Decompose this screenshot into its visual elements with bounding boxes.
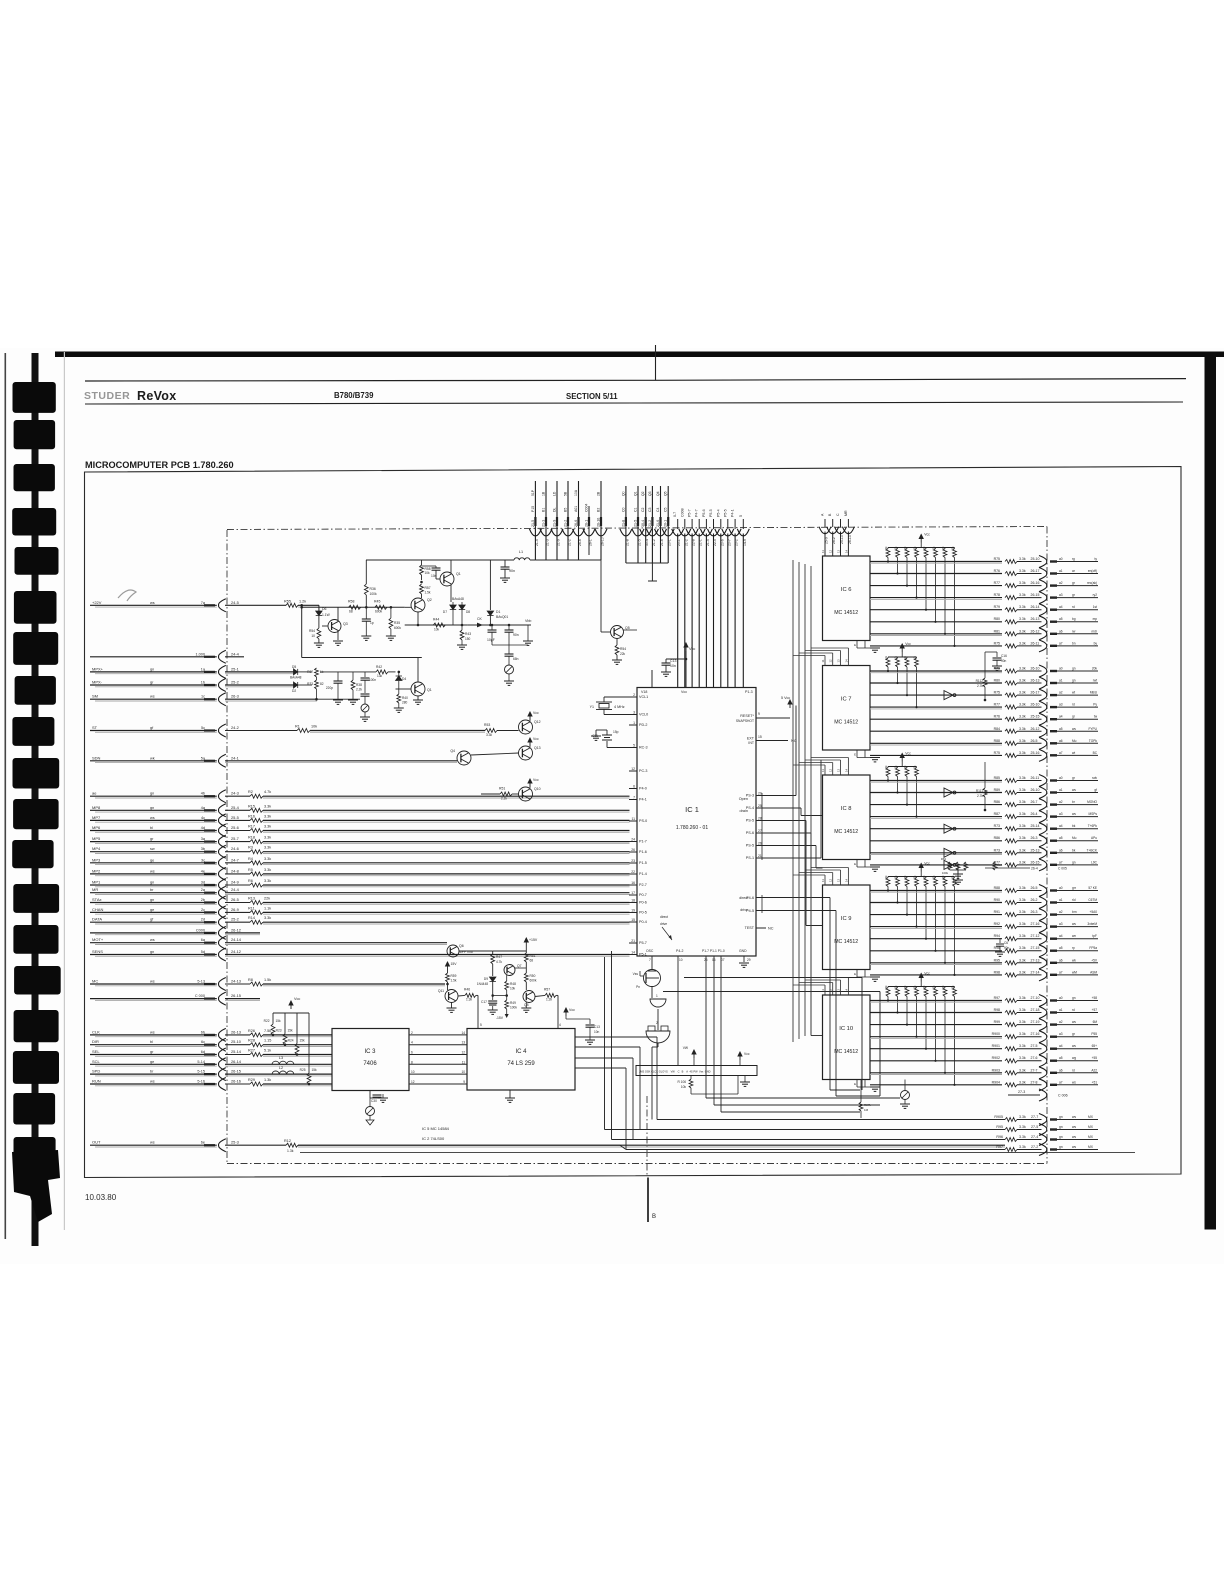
IC 10 output row 27-19 — [870, 1019, 1098, 1031]
svg-text:a6: a6 — [1059, 958, 1063, 962]
svg-text:MC: MC — [92, 979, 98, 984]
svg-text:Vcc: Vcc — [905, 752, 911, 756]
svg-text:15k: 15k — [312, 1068, 318, 1072]
svg-text:12: 12 — [631, 767, 635, 771]
svg-text:a4: a4 — [1059, 824, 1063, 828]
supply +15V Q7 — [524, 938, 538, 953]
wire U4 output 2 — [575, 1047, 640, 1130]
svg-text:Q4: Q4 — [450, 749, 455, 753]
ic IC 10 input stubs — [793, 978, 848, 996]
wire U1 P42 drop — [677, 956, 679, 1066]
ic U1 PS pin labels — [739, 792, 762, 861]
svg-text:4: 4 — [559, 1023, 561, 1027]
capacitor C18 — [585, 1025, 600, 1044]
IC 8 output row 26-10 — [870, 787, 1098, 799]
svg-text:gn: gn — [1059, 1145, 1063, 1149]
ic U3 name — [363, 1049, 377, 1067]
svg-text:26-10: 26-10 — [1031, 667, 1040, 671]
IC 9 output row 27-12 — [870, 933, 1098, 945]
wire row607 — [300, 606, 404, 609]
svg-text:68: 68 — [530, 959, 534, 963]
svg-text:a2: a2 — [1059, 691, 1063, 695]
svg-text:bk: bk — [1072, 824, 1076, 828]
capacitor C7 — [500, 560, 515, 582]
svg-text:PS-6: PS-6 — [746, 831, 754, 835]
inverter on IC8 row5 — [944, 824, 956, 833]
svg-text:STUDER: STUDER — [84, 390, 130, 402]
bottom output row 27-5 — [996, 1124, 1098, 1136]
svg-text:R54: R54 — [620, 647, 626, 651]
ic IC 6 name — [834, 587, 858, 616]
wire U1 osc drop — [651, 956, 653, 969]
svg-text:22k: 22k — [620, 652, 626, 656]
IC 9 output row 27-13 — [870, 957, 1098, 969]
wire U1 P10 drop — [721, 956, 860, 1112]
wire row625b — [490, 624, 531, 626]
svg-text:R75: R75 — [994, 641, 1000, 645]
svg-text:220p: 220p — [326, 686, 333, 690]
top black scan bar — [55, 352, 1224, 358]
svg-text:R96: R96 — [996, 1135, 1003, 1139]
svg-text:MX: MX — [1088, 1145, 1094, 1149]
svg-text:R905: R905 — [994, 1115, 1003, 1119]
svg-text:Q7: Q7 — [517, 964, 522, 968]
svg-text:P5-1: P5-1 — [639, 953, 647, 957]
svg-text:ST: ST — [92, 725, 98, 730]
svg-text:27-4: 27-4 — [1031, 1135, 1038, 1139]
svg-text:Vcc: Vcc — [924, 862, 930, 866]
svg-text:MP1: MP1 — [92, 880, 101, 885]
connector row 24-1 wire — [90, 754, 457, 767]
svg-text:E: E — [854, 972, 856, 976]
svg-text:14: 14 — [844, 549, 848, 553]
svg-text:24-13: 24-13 — [231, 979, 241, 984]
svg-text:B: B — [652, 1214, 656, 1220]
svg-text:21-5: 21-5 — [634, 520, 638, 527]
svg-text:R77: R77 — [994, 581, 1000, 585]
bottom long row1152 — [300, 1152, 1135, 1154]
svg-text:26-15: 26-15 — [1031, 860, 1040, 864]
svg-text:MX: MX — [1088, 1135, 1094, 1139]
svg-text:+5V: +5V — [1091, 958, 1098, 962]
svg-text:a6: a6 — [1059, 848, 1063, 852]
svg-text:20: 20 — [758, 792, 762, 796]
svg-text:1N4448: 1N4448 — [477, 982, 488, 986]
svg-text:PS-5: PS-5 — [746, 844, 754, 848]
svg-text:26-11: 26-11 — [1031, 641, 1040, 645]
binder hole 1 — [13, 382, 56, 413]
capacitor C13 — [661, 658, 687, 677]
svg-text:R92: R92 — [994, 922, 1000, 926]
svg-text:R37: R37 — [307, 670, 313, 674]
svg-text:ws: ws — [150, 695, 155, 699]
ic U1 left pins — [629, 693, 648, 957]
svg-text:ws: ws — [150, 869, 155, 873]
wire row625 — [405, 624, 468, 626]
svg-text:3xbeM: 3xbeM — [1087, 922, 1097, 926]
svg-text:a1: a1 — [1059, 679, 1063, 683]
svg-text:3.3k: 3.3k — [1019, 860, 1026, 864]
svg-text:24-14: 24-14 — [231, 937, 242, 942]
svg-text:R59: R59 — [451, 974, 457, 978]
resistor R51b — [524, 953, 535, 968]
svg-text:VW: VW — [683, 1046, 689, 1050]
svg-text:3.3k: 3.3k — [1019, 703, 1026, 707]
svg-text:MR: MR — [92, 887, 98, 892]
svg-text:MR: MR — [844, 510, 848, 516]
svg-text:1p: 1p — [370, 621, 374, 625]
fet Q15 — [633, 970, 661, 990]
svg-text:IC 5 MC 14584: IC 5 MC 14584 — [422, 1126, 450, 1131]
svg-text:R98: R98 — [994, 1008, 1000, 1012]
svg-text:R27: R27 — [248, 1049, 255, 1053]
connector row 26-16 wire — [90, 1078, 332, 1091]
connector row 24-13 wire — [90, 978, 445, 991]
IC 7 output row 26-13 — [870, 677, 1098, 689]
ic IC 7 pull-up resistor bank — [885, 642, 918, 708]
svg-text:3.3k: 3.3k — [1019, 996, 1026, 1000]
svg-text:MONO: MONO — [1087, 800, 1097, 804]
svg-text:C4: C4 — [656, 507, 660, 512]
svg-text:25-2: 25-2 — [231, 680, 239, 685]
svg-text:MP4: MP4 — [92, 846, 101, 851]
svg-text:21-6: 21-6 — [660, 539, 664, 546]
wire U1 P17 drop — [706, 956, 900, 1098]
svg-text:Vcc: Vcc — [294, 997, 300, 1001]
svg-text:3.3k: 3.3k — [1019, 1145, 1026, 1149]
diode D5 — [290, 665, 312, 680]
fet Q16 — [222, 943, 473, 957]
svg-text:Vbb: Vbb — [525, 619, 531, 623]
svg-text:INT: INT — [748, 741, 755, 745]
svg-text:R76: R76 — [994, 715, 1000, 719]
svg-text:R23: R23 — [276, 1029, 282, 1033]
svg-text:gn: gn — [150, 667, 154, 671]
wire U4 output 1 — [575, 1037, 657, 1120]
svg-text:10: 10 — [461, 1070, 465, 1074]
wire U1 P4-6 — [756, 898, 860, 1091]
svg-text:5-13: 5-13 — [197, 980, 205, 984]
strip ground — [740, 1076, 750, 1087]
bottom fold line — [647, 1178, 649, 1223]
svg-text:R29: R29 — [248, 1078, 255, 1082]
svg-text:8: 8 — [411, 1060, 413, 1064]
svg-text:R99: R99 — [994, 1020, 1000, 1024]
binder hole 15 — [14, 966, 61, 995]
resistor R31 R33 — [307, 668, 324, 701]
connector row 26-15 wire — [90, 992, 260, 1005]
capacitor C8 chain — [504, 645, 519, 685]
svg-text:a5: a5 — [1059, 946, 1063, 950]
svg-text:GND: GND — [739, 949, 747, 953]
svg-text:P4-1: P4-1 — [731, 509, 735, 517]
connector row 24-7 wire — [90, 856, 630, 869]
svg-text:APu: APu — [1091, 836, 1097, 840]
svg-text:R14: R14 — [248, 916, 255, 920]
svg-text:R112: R112 — [976, 679, 984, 683]
svg-text:1.5k: 1.5k — [425, 591, 431, 595]
svg-text:15k: 15k — [288, 1029, 294, 1033]
svg-text:24-4: 24-4 — [231, 887, 240, 892]
svg-text:5.1k: 5.1k — [264, 1049, 271, 1053]
svg-text:5: 5 — [739, 515, 743, 517]
svg-text:3.3k: 3.3k — [1019, 1032, 1026, 1036]
svg-text:Vcc: Vcc — [744, 1052, 750, 1056]
svg-text:ws: ws — [1072, 788, 1076, 792]
svg-text:R94: R94 — [994, 934, 1000, 938]
ic IC 9 name — [834, 916, 858, 945]
svg-text:P0-7: P0-7 — [639, 893, 647, 897]
svg-text:a7: a7 — [1059, 641, 1063, 645]
svg-text:C13: C13 — [670, 659, 676, 663]
IC6 input riser 4 — [842, 510, 854, 556]
resistor R51 — [481, 787, 519, 801]
svg-text:gn: gn — [150, 806, 154, 810]
top bus line 26-10 — [595, 481, 607, 560]
svg-text:27-14: 27-14 — [1031, 970, 1040, 974]
svg-text:3.3k: 3.3k — [1019, 679, 1026, 683]
svg-text:21-8: 21-8 — [625, 539, 629, 546]
ic IC 7 strobe pins — [854, 750, 880, 762]
connector row 26-15 wire — [90, 1068, 332, 1081]
svg-text:MX: MX — [1088, 1115, 1094, 1119]
svg-text:R78: R78 — [994, 593, 1000, 597]
svg-text:B2: B2 — [597, 508, 601, 512]
right black scan bar — [1205, 352, 1217, 1230]
resistor R40 — [394, 681, 408, 712]
svg-text:TEST: TEST — [745, 926, 755, 930]
svg-text:a6: a6 — [1059, 629, 1063, 633]
svg-text:a4: a4 — [1059, 605, 1063, 609]
wires IC3 to IC4 — [409, 1031, 467, 1084]
svg-text:100k: 100k — [510, 1006, 517, 1010]
top bus drop P5-5 — [708, 509, 720, 687]
svg-text:26-10: 26-10 — [597, 518, 601, 527]
svg-text:R46: R46 — [464, 988, 470, 992]
binder hole 17 — [13, 1051, 59, 1084]
svg-text:bk: bk — [1072, 848, 1076, 852]
svg-text:R87k: R87k — [864, 1103, 872, 1107]
svg-text:P5-7: P5-7 — [639, 941, 647, 945]
svg-text:C6: C6 — [1004, 941, 1008, 945]
svg-text:ty: ty — [1095, 557, 1098, 561]
svg-text:15V: 15V — [451, 962, 458, 966]
transistor Q2 — [405, 598, 432, 612]
svg-text:R91: R91 — [994, 910, 1000, 914]
top bus line 21-2 — [562, 481, 574, 560]
svg-text:13k: 13k — [377, 674, 383, 678]
svg-text:R8: R8 — [248, 978, 253, 982]
svg-text:7: 7 — [649, 958, 651, 962]
svg-text:Q12: Q12 — [534, 720, 541, 724]
ic IC 9 input stubs — [793, 868, 848, 886]
svg-text:tpF: tpF — [1092, 934, 1097, 938]
bottom right IC10 strobe — [859, 1080, 871, 1119]
svg-text:P4-6: P4-6 — [746, 896, 754, 900]
svg-text:R84: R84 — [994, 727, 1000, 731]
wire U1 P4-5 — [756, 911, 880, 1097]
svg-text:TOPk: TOPk — [1089, 739, 1097, 743]
svg-text:IC 3: IC 3 — [364, 1049, 376, 1055]
ic IC 9 pull-up resistor bank — [885, 862, 956, 977]
svg-text:3.3k: 3.3k — [1019, 934, 1026, 938]
svg-text:R36: R36 — [370, 587, 376, 591]
svg-text:14-9: 14-9 — [743, 539, 747, 546]
binder hole 5 — [15, 547, 59, 575]
resistor R46b — [458, 988, 478, 1029]
svg-text:T+6Pk: T+6Pk — [1088, 824, 1098, 828]
svg-text:25-13: 25-13 — [1031, 848, 1040, 852]
svg-text:IC 2 74LS00: IC 2 74LS00 — [422, 1136, 445, 1141]
svg-text:R57: R57 — [425, 586, 431, 590]
svg-text:21-2: 21-2 — [652, 539, 656, 546]
svg-text:26-2: 26-2 — [1031, 898, 1038, 902]
signal arrow CK — [468, 617, 491, 627]
svg-text:C0: C0 — [621, 507, 625, 512]
svg-text:3.3k: 3.3k — [1019, 1068, 1026, 1072]
svg-text:D8: D8 — [466, 610, 470, 614]
svg-text:26-5: 26-5 — [1031, 886, 1038, 890]
svg-text:R85: R85 — [994, 776, 1000, 780]
svg-text:3.3k: 3.3k — [1019, 715, 1026, 719]
svg-text:gn: gn — [1072, 860, 1076, 864]
svg-text:27-2: 27-2 — [1031, 1145, 1038, 1149]
top bus drop P5-4 — [715, 509, 727, 687]
svg-text:gn: gn — [1059, 1115, 1063, 1119]
resistor R44 — [433, 618, 445, 632]
svg-text:R12: R12 — [284, 1139, 291, 1143]
top bus drop C008 — [679, 508, 691, 687]
svg-text:25: 25 — [758, 804, 762, 808]
binder hole 18 — [13, 1093, 55, 1125]
svg-text:25-3: 25-3 — [231, 1140, 239, 1145]
svg-text:R58: R58 — [348, 600, 354, 604]
svg-text:3.3k: 3.3k — [264, 857, 271, 861]
inverter on IC7 row3 — [944, 691, 956, 700]
stub to diode D6 — [318, 605, 320, 611]
svg-text:+55: +55 — [1092, 1056, 1098, 1060]
svg-text:a4: a4 — [1059, 934, 1063, 938]
svg-text:PD-2: PD-2 — [639, 723, 647, 727]
svg-text:P4-0: P4-0 — [639, 787, 647, 791]
resistor R57 vertical — [420, 584, 431, 598]
svg-text:24-5: 24-5 — [231, 600, 239, 605]
svg-text:3.3k: 3.3k — [1019, 691, 1026, 695]
IC 9 output row 27-14 — [870, 969, 1098, 981]
svg-text:R25: R25 — [300, 1068, 306, 1072]
gate A — [650, 987, 666, 1008]
svg-text:ry2: ry2 — [1093, 593, 1098, 597]
svg-text:3.3k: 3.3k — [1019, 1135, 1026, 1139]
IC 8 output row 26-7 — [870, 799, 1098, 811]
svg-text:90n: 90n — [513, 633, 519, 637]
svg-text:1.5k: 1.5k — [451, 979, 457, 983]
svg-text:A01: A01 — [574, 506, 578, 512]
IC 6 output row 26-11 — [870, 640, 1098, 652]
resistor R106 — [677, 1076, 738, 1095]
svg-text:21-3: 21-3 — [542, 520, 546, 527]
resistor R112 spur — [976, 652, 987, 701]
svg-text:26-14: 26-14 — [231, 1059, 242, 1064]
svg-text:3.3k: 3.3k — [1019, 922, 1026, 926]
svg-text:11: 11 — [821, 989, 825, 992]
binder hole 13 — [13, 884, 59, 913]
svg-text:C008: C008 — [680, 508, 684, 517]
svg-text:15: 15 — [631, 918, 635, 922]
svg-text:a4: a4 — [1059, 1044, 1063, 1048]
svg-text:26-6: 26-6 — [578, 539, 582, 546]
svg-text:MP5: MP5 — [92, 836, 101, 841]
svg-text:07: 07 — [721, 958, 725, 962]
svg-text:Q3: Q3 — [343, 622, 348, 626]
svg-text:3.3k: 3.3k — [1019, 1080, 1026, 1084]
svg-text:3.3k: 3.3k — [1019, 1125, 1026, 1129]
scanned paper area — [0, 348, 1224, 1264]
svg-text:26: 26 — [631, 848, 635, 852]
transistor Q12 — [519, 711, 541, 734]
svg-text:1.2k: 1.2k — [546, 998, 552, 1002]
svg-text:brn: brn — [1072, 910, 1077, 914]
top bus line 26-6 — [573, 481, 585, 560]
ic IC 8 name — [834, 806, 858, 835]
svg-text:2.7k: 2.7k — [977, 684, 983, 688]
svg-text:2.2k: 2.2k — [501, 797, 507, 801]
svg-text:5 Vcc: 5 Vcc — [781, 696, 790, 700]
svg-text:600k: 600k — [375, 610, 383, 614]
resistor R54 — [309, 624, 324, 647]
svg-text:gn: gn — [1072, 679, 1076, 683]
wire Q1 emitter — [450, 585, 452, 602]
svg-text:RUN: RUN — [92, 1079, 101, 1084]
wire U1 PS2 to right ICs — [756, 821, 823, 926]
ic U4 body — [467, 1029, 575, 1091]
svg-text:82: 82 — [320, 682, 324, 686]
svg-text:a7: a7 — [1059, 860, 1063, 864]
inverter on IC8 row7 — [944, 848, 956, 857]
svg-text:VCL0: VCL0 — [639, 713, 648, 717]
svg-text:ws: ws — [1072, 922, 1076, 926]
svg-text:R87: R87 — [994, 812, 1000, 816]
svg-text:PS-1: PS-1 — [746, 856, 754, 860]
svg-text:57 KE: 57 KE — [1088, 886, 1097, 890]
svg-text:24-3: 24-3 — [231, 791, 239, 796]
svg-text:R53: R53 — [484, 723, 490, 727]
svg-text:R57: R57 — [544, 988, 550, 992]
svg-text:gn: gn — [150, 950, 154, 954]
top bus line 30-4 — [640, 486, 652, 563]
svg-text:CK: CK — [477, 617, 483, 621]
IC 7 output row 25-15 — [870, 713, 1098, 725]
svg-text:a0: a0 — [1059, 776, 1063, 780]
data bus vertical 2 — [798, 562, 800, 1039]
svg-text:ws: ws — [1072, 1080, 1076, 1084]
svg-text:E: E — [854, 862, 856, 866]
pen mark — [118, 590, 136, 601]
svg-text:10k: 10k — [425, 571, 431, 575]
svg-text:BAvQ01: BAvQ01 — [496, 615, 508, 619]
svg-text:IC 10: IC 10 — [839, 1026, 853, 1032]
svg-text:MC 14512: MC 14512 — [834, 939, 858, 945]
svg-text:EXT: EXT — [747, 737, 755, 741]
svg-text:wt: wt — [1072, 751, 1075, 755]
wire Q2 emitter drop — [417, 612, 420, 626]
vcc strip right — [738, 1052, 750, 1066]
svg-text:26-15: 26-15 — [1031, 593, 1040, 597]
connector row 25-2 wire — [90, 679, 294, 692]
svg-text:MPX-: MPX- — [92, 680, 103, 685]
svg-text:27-18: 27-18 — [1031, 1008, 1040, 1012]
svg-text:wt: wt — [1072, 691, 1075, 695]
